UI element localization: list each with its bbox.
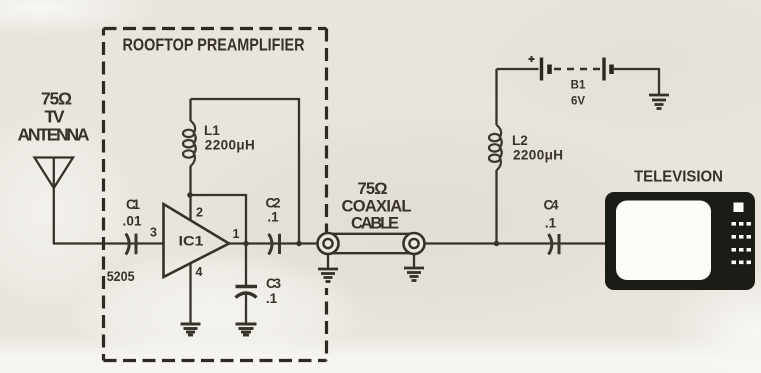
ground under C3 [236,324,257,335]
svg-text:75Ω: 75Ω [358,180,388,198]
svg-text:TV: TV [45,107,65,127]
svg-text:C3: C3 [266,276,281,291]
svg-text:C2: C2 [266,196,281,211]
ground under pin 4 [181,324,201,335]
svg-text:2: 2 [196,206,203,220]
C4 value label [544,198,559,231]
ground battery [649,95,669,109]
svg-text:.01: .01 [123,214,142,229]
wire L1 junction to C3 branch [191,195,247,244]
wire battery left [497,68,539,70]
junction L1 bottom [187,192,193,198]
svg-text:IC1: IC1 [179,234,205,249]
B1 value label [571,80,586,108]
ground under left coax connector [318,254,338,282]
svg-text:2200μH: 2200μH [205,138,255,153]
svg-text:2200μH: 2200μH [513,148,563,163]
television set body [605,192,755,290]
wire antenna stem [53,188,55,244]
battery B1 cell plates [542,58,550,81]
coax connector right [404,233,425,254]
coax cable label 75Ω COAXIAL CABLE [342,180,412,233]
L2 value label [512,133,563,163]
L1 value label [204,123,255,153]
capacitor C1 [126,234,136,255]
svg-text:ROOFTOP PREAMPLIFIER: ROOFTOP PREAMPLIFIER [123,35,305,55]
pin 4 wire [189,263,191,324]
svg-text:C1: C1 [126,197,140,212]
svg-text:ANTENNA: ANTENNA [18,125,90,145]
junction feedback rail tap [296,241,301,246]
capacitor C4 [549,234,560,254]
ground under right coax connector [404,254,424,281]
television screen [616,201,711,281]
antenna symbol [35,158,74,189]
coax connector left [318,233,339,288]
svg-text:.1: .1 [266,291,278,306]
wire IC1 output to C2 [229,242,318,244]
inductor L2 [489,69,502,244]
battery B1 second cell plates [604,58,612,81]
junction L2 tap [494,241,499,246]
op-amp IC1 triangle [164,204,230,277]
capacitor C2 [269,234,280,255]
plus sign [529,56,535,62]
svg-text:6V: 6V [571,96,585,108]
television control dots [732,222,752,264]
svg-text:B1: B1 [571,80,586,92]
junction at C3 tap [243,241,248,246]
coax shield wires [331,234,411,253]
svg-text:4: 4 [196,265,203,279]
capacitor C3 [236,244,258,324]
svg-text:TELEVISION: TELEVISION [634,169,723,186]
rooftop preamplifier dashed enclosure [104,29,327,361]
svg-text:COAXIAL: COAXIAL [342,198,412,216]
wire top feedback rail [191,99,300,244]
svg-text:C4: C4 [544,198,559,213]
svg-text:.1: .1 [267,210,279,225]
wire battery right to ground [614,69,659,94]
svg-text:3: 3 [150,226,157,240]
C2 value label [266,196,281,225]
svg-text:.1: .1 [545,216,557,231]
inductor L1 [183,99,196,195]
antenna label 75Ω TV ANTENNA [18,89,90,145]
dashed wire between battery cells [554,68,600,70]
svg-text:5205: 5205 [107,269,135,284]
television power button [734,203,744,213]
C1 value label [123,197,142,229]
svg-text:L2: L2 [512,133,528,148]
svg-text:75Ω: 75Ω [41,89,72,109]
wire coax to C4 [425,242,607,244]
svg-text:1: 1 [233,227,240,241]
svg-text:L1: L1 [204,123,220,138]
C3 value label [266,276,282,306]
svg-text:CABLE: CABLE [351,215,399,233]
pin 2 wire [189,195,191,221]
wire antenna to C1 [53,242,164,244]
